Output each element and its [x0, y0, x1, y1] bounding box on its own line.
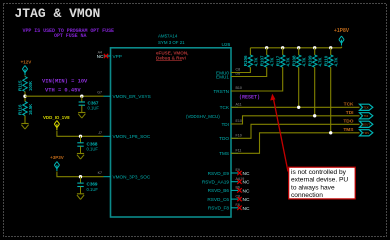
- svg-text:VPP: VPP: [113, 54, 122, 59]
- svg-text:F11: F11: [236, 149, 242, 153]
- svg-text:Debug & Revi: Debug & Revi: [156, 55, 186, 60]
- svg-text:VMON_1P8_SOC: VMON_1P8_SOC: [113, 134, 151, 139]
- svg-text:RSVD_F8: RSVD_F8: [208, 206, 229, 211]
- svg-text:TDI: TDI: [221, 122, 229, 127]
- svg-text:K7: K7: [98, 171, 102, 175]
- svg-text:external devise. PU: external devise. PU: [291, 177, 348, 184]
- svg-text:DOUT: DOUT: [362, 123, 370, 127]
- svg-text:0.1UF: 0.1UF: [87, 187, 99, 192]
- svg-text:TCK: TCK: [363, 106, 369, 110]
- svg-text:NC: NC: [243, 206, 250, 212]
- svg-text:RSVD_C6: RSVD_C6: [207, 197, 229, 202]
- svg-text:0.1UF: 0.1UF: [87, 147, 99, 152]
- svg-text:TDO: TDO: [219, 136, 229, 141]
- svg-text:4.7K: 4.7K: [318, 57, 323, 66]
- svg-text:TDO: TDO: [343, 118, 353, 124]
- svg-text:NC: NC: [243, 188, 250, 194]
- svg-text:AM57A14: AM57A14: [158, 34, 178, 39]
- svg-text:VIN(MIN) = 10V: VIN(MIN) = 10V: [42, 78, 88, 84]
- svg-text:4.7K: 4.7K: [334, 57, 339, 66]
- svg-text:+1P8V: +1P8V: [334, 28, 350, 34]
- svg-text:4.7K: 4.7K: [286, 57, 291, 66]
- svg-text:NC: NC: [243, 180, 250, 186]
- svg-text:TMS: TMS: [363, 131, 369, 135]
- svg-text:100K: 100K: [28, 81, 33, 91]
- svg-text:OPT FUSE NA: OPT FUSE NA: [54, 33, 87, 39]
- svg-text:VTH = 0.45V: VTH = 0.45V: [45, 87, 81, 93]
- svg-text:U26: U26: [222, 42, 231, 48]
- svg-text:to always have: to always have: [291, 184, 335, 191]
- svg-text:JTAG & VMON: JTAG & VMON: [15, 6, 101, 21]
- svg-text:TCK: TCK: [344, 101, 354, 107]
- svg-text:connection: connection: [291, 192, 323, 199]
- svg-text:R115: R115: [17, 80, 22, 91]
- svg-text:R109: R109: [307, 55, 312, 66]
- svg-text:RSVD_B6: RSVD_B6: [208, 188, 230, 193]
- svg-text:VDD_IO_1V8: VDD_IO_1V8: [43, 115, 70, 120]
- svg-text:R107: R107: [259, 55, 264, 66]
- svg-text:B10: B10: [236, 86, 242, 90]
- svg-text:F10: F10: [236, 134, 242, 138]
- svg-text:4.7K: 4.7K: [302, 57, 307, 66]
- svg-text:R116: R116: [17, 104, 22, 115]
- svg-text:NC: NC: [97, 54, 104, 59]
- svg-text:TDI: TDI: [364, 114, 369, 118]
- svg-text:NC: NC: [243, 171, 250, 177]
- svg-text:+3P3V: +3P3V: [50, 155, 64, 160]
- svg-text:J7: J7: [98, 131, 102, 135]
- svg-text:R106: R106: [243, 55, 248, 66]
- svg-text:R108: R108: [291, 55, 296, 66]
- svg-text:A11: A11: [236, 103, 242, 107]
- svg-text:is not controlled by: is not controlled by: [291, 169, 347, 176]
- svg-text:(RESET): (RESET): [239, 95, 260, 101]
- svg-text:R110: R110: [323, 55, 328, 66]
- svg-text:16.5K: 16.5K: [28, 104, 33, 115]
- svg-text:RSVD_AA19: RSVD_AA19: [202, 180, 229, 185]
- svg-text:+12V: +12V: [21, 60, 32, 65]
- svg-text:0.1UF: 0.1UF: [88, 106, 100, 111]
- svg-text:SYM 3 OF 21: SYM 3 OF 21: [158, 40, 185, 45]
- svg-text:R117: R117: [275, 55, 280, 66]
- svg-text:4.7K: 4.7K: [253, 57, 258, 66]
- svg-text:TRSTN: TRSTN: [213, 89, 229, 94]
- svg-text:E10: E10: [236, 119, 242, 123]
- svg-text:VMON_3P3_SOC: VMON_3P3_SOC: [113, 175, 151, 180]
- svg-text:RSVD_E9: RSVD_E9: [208, 171, 230, 176]
- svg-text:VMON_ER_VSYS: VMON_ER_VSYS: [113, 94, 151, 99]
- svg-text:TCK: TCK: [220, 105, 230, 110]
- svg-text:G7: G7: [97, 91, 102, 95]
- svg-text:TMS: TMS: [219, 151, 229, 156]
- svg-text:(VDDSHV_MCU): (VDDSHV_MCU): [186, 114, 220, 119]
- svg-text:TMS: TMS: [343, 127, 354, 133]
- svg-text:EMU1: EMU1: [216, 74, 229, 79]
- svg-text:NC: NC: [243, 197, 250, 203]
- svg-text:TDI: TDI: [346, 110, 354, 116]
- svg-text:4.7K: 4.7K: [270, 57, 275, 66]
